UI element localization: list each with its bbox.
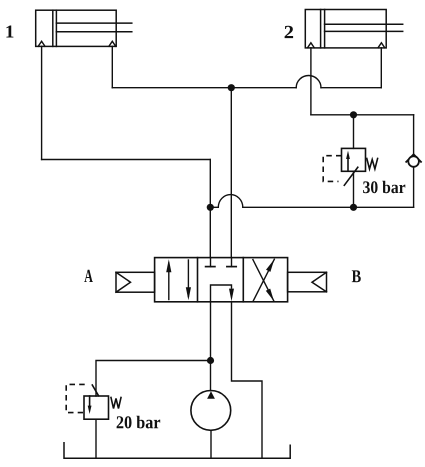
relief valve 20 bar adjust arrow (92, 385, 98, 396)
wire B work line down to valve (230, 88, 232, 258)
wire B net horizontal right (321, 87, 381, 89)
relief valve 20 bar body (84, 396, 109, 419)
wire A work line down to valve (209, 160, 211, 258)
valve left box down arrow (186, 260, 191, 300)
junction dot B net (228, 84, 235, 91)
cylinder 1 left port (38, 41, 45, 46)
directional valve body (155, 258, 288, 302)
wire cyl2 right port up (380, 48, 382, 88)
relief valve 30 bar arrow head (346, 151, 350, 159)
wire cyl2 left port down (310, 48, 312, 115)
label B (352, 270, 361, 282)
label 2 (285, 26, 294, 38)
wire B net horizontal (112, 87, 296, 89)
valve centre blocked port B (227, 258, 236, 267)
valve centre blocked port A (206, 258, 215, 267)
wire A net horizontal left (210, 206, 218, 208)
wire check valve bottom (413, 167, 415, 208)
relief valve 20 bar spring (111, 398, 121, 409)
junction dot pilot net (350, 111, 357, 118)
relief valve 20 bar arrow head (88, 406, 92, 414)
wire T line valve to tank (232, 302, 263, 458)
tank (64, 443, 290, 458)
wire relief 30bar inlet (353, 115, 355, 149)
junction dot A net left (207, 204, 214, 211)
label 1 (6, 25, 13, 37)
relief valve 30 bar adjust arrow (344, 167, 358, 185)
wire P line valve to pump (210, 302, 212, 391)
wire cyl1 right port down (111, 46, 113, 87)
cylinder 2 left port (308, 43, 315, 48)
wire cyl1 left horizontal (42, 159, 211, 161)
valve left box up arrow (166, 259, 171, 299)
label A (84, 270, 92, 282)
junction dot P net (207, 357, 214, 364)
cylinder 1 right port (109, 41, 116, 46)
relief valve 30 bar pilot dashed (323, 156, 341, 182)
wire relief 20bar outlet to tank (95, 419, 97, 458)
label 30 bar (363, 181, 405, 193)
valve centre bypass P to T (211, 285, 235, 302)
valve right box cross arrow down (253, 260, 274, 302)
label 20 bar (117, 416, 161, 429)
wire hop over cyl2-left line (296, 75, 321, 87)
wire pilot net horizontal (311, 114, 414, 116)
relief valve 20 bar pilot dashed (66, 384, 85, 412)
solenoid A (116, 272, 155, 292)
cylinder 2 body (305, 10, 402, 48)
junction dot A net right (350, 204, 357, 211)
solenoid B (288, 272, 327, 292)
wire hop over B line (218, 195, 243, 208)
wire cyl1 left port down (41, 46, 43, 159)
valve right box cross arrow up (253, 259, 274, 301)
relief valve 30 bar body (342, 148, 366, 171)
cylinder 1 body (36, 10, 132, 46)
pump (191, 391, 231, 431)
wire A net horizontal right (243, 206, 414, 208)
wire check valve top (413, 115, 415, 157)
wire relief 30bar outlet (353, 171, 355, 207)
check valve (406, 154, 421, 167)
cylinder 2 right port (378, 43, 385, 48)
relief valve 30 bar spring (367, 159, 378, 170)
wire P branch to relief 20bar (96, 361, 211, 397)
wire pump suction (210, 430, 212, 458)
